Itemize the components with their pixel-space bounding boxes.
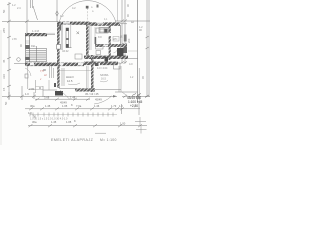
svg-text:45 / 13 / 45: 45 / 13 / 45	[85, 92, 99, 96]
svg-text:45/49: 45/49	[60, 101, 67, 105]
svg-text:+2,80: +2,80	[130, 104, 138, 108]
wall x=108	[109, 25, 111, 33]
svg-text:M= 1:100: M= 1:100	[100, 138, 117, 142]
svg-text:1.4 M: 1.4 M	[32, 29, 40, 33]
top main wall y=21.6-24.8	[57, 22, 90, 25]
svg-text:15: 15	[2, 87, 6, 91]
right dimension verticals	[122, 0, 149, 97]
svg-text:1.0: 1.0	[25, 92, 29, 96]
svg-text:K: K	[74, 119, 76, 123]
lower center verticals	[50, 66, 65, 86]
left dimension verticals	[9, 0, 27, 99]
svg-text:45: 45	[2, 59, 6, 63]
break marks + leader top-left	[31, 0, 38, 20]
svg-text:7,5: 7,5	[40, 69, 44, 73]
left exterior wall	[25, 33, 29, 66]
svg-text:K: K	[71, 103, 73, 107]
svg-text:4.0: 4.0	[129, 62, 133, 66]
svg-text:4.2: 4.2	[72, 6, 76, 10]
svg-text:KO: KO	[98, 35, 102, 39]
svg-text:50: 50	[4, 101, 8, 105]
svg-text:2.85: 2.85	[12, 38, 17, 41]
svg-text:1.05: 1.05	[62, 104, 68, 108]
big arc	[59, 1, 116, 23]
svg-text:1.2: 1.2	[12, 3, 16, 7]
svg-text:12.5: 12.5	[67, 79, 73, 83]
svg-text:1.48: 1.48	[70, 95, 76, 99]
svg-text:WC: WC	[113, 37, 117, 41]
svg-text:1.0: 1.0	[119, 104, 123, 108]
svg-text:285: 285	[2, 28, 6, 33]
svg-text:2.80: 2.80	[29, 87, 35, 91]
svg-text:310: 310	[2, 74, 6, 79]
svg-text:1.45: 1.45	[51, 120, 57, 124]
svg-text:200: 200	[127, 38, 131, 43]
svg-text:1.45: 1.45	[45, 104, 51, 108]
svg-text:50: 50	[2, 9, 6, 13]
chimney block x=66-68.5	[66, 28, 69, 48]
column mark	[77, 31, 80, 34]
svg-text:16.5: 16.5	[101, 78, 106, 81]
central wall A x=57-59.5	[57, 25, 60, 45]
svg-text:45/49: 45/49	[95, 98, 102, 102]
svg-text:4.0 / 4.04: 4.0 / 4.04	[97, 67, 108, 70]
svg-text:1.46: 1.46	[94, 104, 100, 108]
bottom dimension stack	[2, 86, 150, 100]
fixtures right	[96, 45, 104, 50]
svg-text:2.4: 2.4	[17, 6, 21, 10]
bottom walls	[28, 89, 43, 91]
faint pair x=61.5	[61, 25, 63, 50]
svg-text:3.68: 3.68	[44, 95, 50, 99]
svg-text:VA 02: VA 02	[62, 50, 69, 53]
horizontal dim top y=21.3	[2, 20, 150, 24]
svg-text:1.05: 1.05	[66, 120, 72, 124]
svg-text:30a: 30a	[32, 120, 37, 124]
stairs	[26, 46, 47, 62]
right middle walls	[95, 44, 127, 47]
faint left page edge	[0, 30, 2, 145]
svg-text:1.2: 1.2	[60, 14, 64, 18]
svg-text:FEL: FEL	[31, 44, 36, 48]
red annotations	[40, 69, 47, 81]
svg-text:EMELETI ALAPRAJZ: EMELETI ALAPRAJZ	[51, 138, 94, 142]
lower-right room details	[60, 70, 92, 72]
central wall B x=86-88.5	[86, 25, 89, 57]
